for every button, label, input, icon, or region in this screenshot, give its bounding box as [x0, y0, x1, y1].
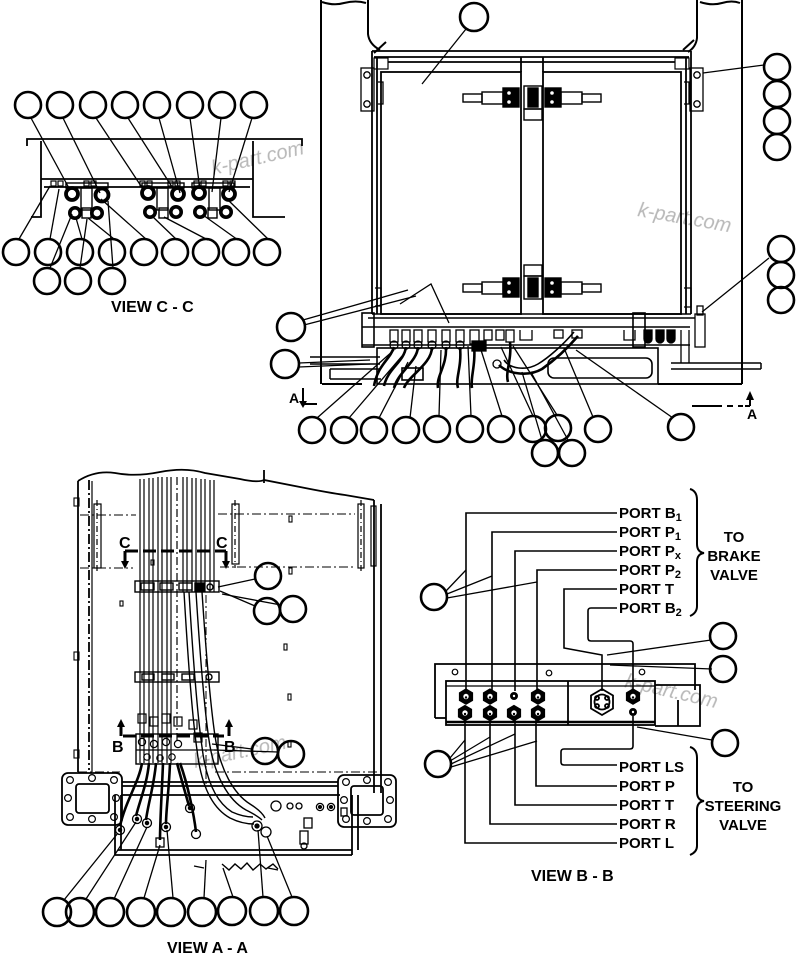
svg-text:PORT B1: PORT B1: [619, 505, 682, 524]
svg-text:PORT T: PORT T: [619, 581, 674, 598]
svg-text:PORT L: PORT L: [619, 835, 674, 852]
svg-text:VIEW A - A: VIEW A - A: [167, 940, 248, 956]
svg-text:TO: TO: [733, 779, 754, 796]
svg-text:STEERING: STEERING: [705, 798, 782, 815]
svg-text:PORT P: PORT P: [619, 778, 675, 795]
svg-text:BRAKE: BRAKE: [707, 548, 760, 565]
svg-text:TO: TO: [724, 529, 745, 546]
svg-text:PORT Px: PORT Px: [619, 543, 682, 562]
svg-text:VIEW B - B: VIEW B - B: [531, 868, 614, 885]
svg-text:PORT T: PORT T: [619, 797, 674, 814]
svg-text:VALVE: VALVE: [710, 567, 758, 584]
svg-text:PORT P1: PORT P1: [619, 524, 681, 543]
svg-text:A: A: [747, 406, 757, 422]
svg-text:VALVE: VALVE: [719, 817, 767, 834]
svg-text:C: C: [119, 535, 131, 552]
svg-text:PORT R: PORT R: [619, 816, 676, 833]
svg-text:A: A: [289, 390, 299, 406]
svg-text:B: B: [112, 739, 124, 756]
svg-text:C: C: [216, 535, 228, 552]
svg-text:B: B: [224, 739, 236, 756]
svg-text:VIEW C - C: VIEW C - C: [111, 299, 194, 316]
svg-text:PORT B2: PORT B2: [619, 600, 682, 619]
svg-text:PORT LS: PORT LS: [619, 759, 684, 776]
svg-text:PORT P2: PORT P2: [619, 562, 681, 581]
